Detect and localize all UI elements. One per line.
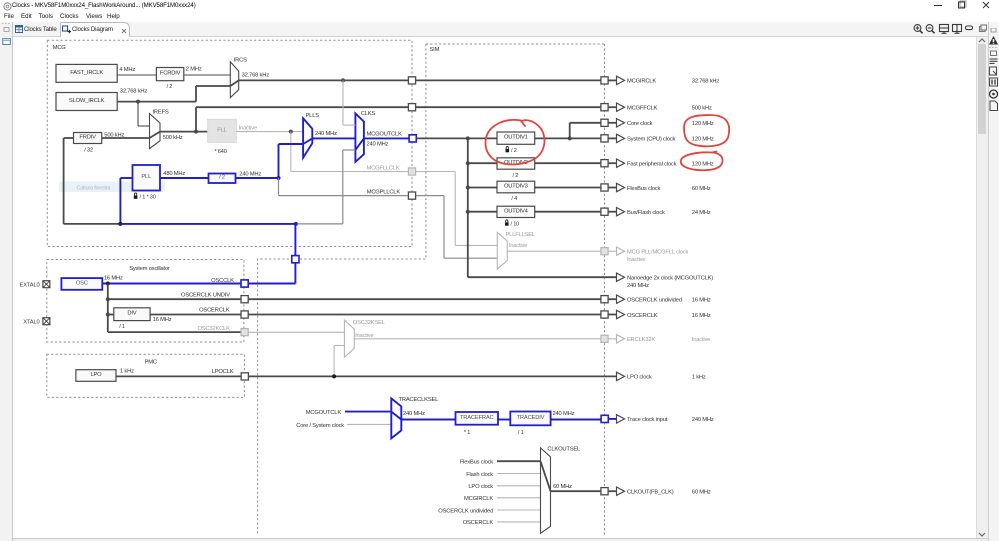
svg-text:LPO: LPO	[90, 372, 102, 378]
svg-text:240 MHz: 240 MHz	[239, 171, 261, 177]
svg-text:/ 2: / 2	[167, 84, 173, 90]
svg-text:240 MHz: 240 MHz	[692, 417, 714, 423]
svg-text:Inactive: Inactive	[239, 125, 257, 131]
svg-text:PMC: PMC	[145, 359, 157, 365]
svg-text:/ 2: / 2	[512, 173, 518, 179]
svg-text:System oscillator: System oscillator	[129, 266, 170, 272]
svg-text:Core clock: Core clock	[627, 121, 653, 127]
svg-text:OSCERCLK undivided: OSCERCLK undivided	[627, 298, 682, 304]
svg-text:OSC32KCLK: OSC32KCLK	[197, 326, 230, 332]
svg-text:/ 1 * 30: / 1 * 30	[140, 195, 156, 201]
svg-text:TRACECLKSEL: TRACECLKSEL	[399, 397, 440, 403]
svg-text:/ 2: / 2	[511, 148, 517, 154]
svg-text:PLLS: PLLS	[306, 113, 320, 119]
svg-text:MCGOUTCLK: MCGOUTCLK	[306, 410, 342, 416]
svg-text:32.768 kHz: 32.768 kHz	[692, 79, 720, 85]
svg-text:16 MHz: 16 MHz	[153, 317, 172, 323]
svg-text:24 MHz: 24 MHz	[692, 210, 711, 216]
svg-text:SLOW_IRCLK: SLOW_IRCLK	[69, 98, 105, 104]
svg-text:MCG PLL/MCGFLL clock: MCG PLL/MCGFLL clock	[627, 250, 688, 256]
svg-text:OSCERCLK undivided: OSCERCLK undivided	[438, 508, 493, 514]
svg-text:IREFS: IREFS	[153, 110, 169, 116]
svg-text:Flash clock: Flash clock	[466, 472, 493, 478]
svg-text:MCGIRCLK: MCGIRCLK	[464, 496, 493, 502]
svg-text:CLKS: CLKS	[361, 111, 376, 117]
svg-text:OUTDIV3: OUTDIV3	[504, 183, 528, 189]
svg-text:LPOCLK: LPOCLK	[212, 369, 234, 375]
svg-text:Fast peripheral clock: Fast peripheral clock	[627, 162, 677, 168]
svg-text:Trace clock input: Trace clock input	[627, 417, 668, 423]
svg-text:32.768 kHz: 32.768 kHz	[242, 72, 270, 78]
svg-text:FRDIV: FRDIV	[79, 134, 96, 140]
svg-text:CLKOUT(FB_CLK): CLKOUT(FB_CLK)	[627, 490, 674, 496]
svg-text:Inactive: Inactive	[692, 337, 710, 343]
svg-text:/ 4: / 4	[511, 196, 517, 202]
svg-text:FLL: FLL	[217, 127, 227, 133]
svg-text:EXTAL0: EXTAL0	[20, 283, 40, 289]
svg-text:/ 1: / 1	[119, 324, 125, 330]
svg-text:OUTDIV1: OUTDIV1	[504, 135, 528, 141]
svg-text:Core / System clock: Core / System clock	[296, 423, 344, 429]
svg-text:OSCERCLK UNDIV: OSCERCLK UNDIV	[181, 293, 230, 299]
svg-text:240 MHz: 240 MHz	[553, 411, 575, 417]
svg-text:16 MHz: 16 MHz	[104, 276, 123, 282]
svg-text:PLL: PLL	[141, 174, 152, 180]
svg-text:16 MHz: 16 MHz	[692, 313, 711, 319]
svg-text:* 640: * 640	[215, 149, 227, 155]
svg-text:Inactive: Inactive	[509, 243, 527, 249]
svg-text:OSCERCLK: OSCERCLK	[627, 313, 658, 319]
svg-text:Cattura finestra: Cattura finestra	[77, 185, 111, 191]
svg-text:OSCERCLK: OSCERCLK	[463, 520, 494, 526]
svg-text:240 MHz: 240 MHz	[403, 411, 425, 417]
svg-text:240 MHz: 240 MHz	[627, 283, 649, 289]
svg-text:4 MHz: 4 MHz	[119, 67, 135, 73]
svg-text:FlexBus clock: FlexBus clock	[627, 186, 660, 192]
svg-text:TRACEFRAC: TRACEFRAC	[460, 415, 494, 421]
svg-text:120 MHz: 120 MHz	[692, 137, 714, 143]
svg-text:OSCCLK: OSCCLK	[211, 278, 234, 284]
svg-text:Bus/Flash clock: Bus/Flash clock	[627, 210, 665, 216]
svg-text:/ 1: / 1	[518, 430, 524, 436]
svg-text:MCGFFCLK: MCGFFCLK	[627, 106, 658, 112]
svg-text:PLLFLLSEL: PLLFLLSEL	[506, 232, 536, 238]
svg-text:240 MHz: 240 MHz	[367, 141, 389, 147]
svg-text:FCRDIV: FCRDIV	[160, 71, 181, 77]
svg-text:MCGOUTCLK: MCGOUTCLK	[367, 131, 403, 137]
svg-text:120 MHz: 120 MHz	[692, 162, 714, 168]
svg-text:/ 2: / 2	[219, 175, 225, 181]
svg-text:LPO clock: LPO clock	[468, 484, 493, 490]
svg-text:LPO clock: LPO clock	[627, 375, 652, 381]
svg-text:500 kHz: 500 kHz	[692, 106, 712, 112]
svg-text:500 kHz: 500 kHz	[163, 135, 183, 141]
svg-text:FlexBus clock: FlexBus clock	[460, 460, 493, 466]
svg-text:Inactive: Inactive	[627, 257, 645, 263]
svg-text:2 MHz: 2 MHz	[186, 66, 202, 72]
svg-text:60 MHz: 60 MHz	[692, 186, 711, 192]
svg-text:OSC: OSC	[76, 280, 88, 286]
svg-text:500 kHz: 500 kHz	[104, 133, 124, 139]
svg-text:16 MHz: 16 MHz	[692, 298, 711, 304]
svg-text:MCGIRCLK: MCGIRCLK	[627, 79, 656, 85]
svg-text:Inactive: Inactive	[355, 333, 373, 339]
svg-text:/ 10: / 10	[511, 222, 520, 228]
svg-text:120 MHz: 120 MHz	[692, 121, 714, 127]
svg-text:SIM: SIM	[430, 47, 440, 53]
svg-text:32.768 kHz: 32.768 kHz	[120, 88, 148, 94]
svg-text:OSC32KSEL: OSC32KSEL	[353, 320, 386, 326]
svg-text:IRCS: IRCS	[234, 58, 247, 64]
svg-text:MCGPLLCLK: MCGPLLCLK	[367, 189, 401, 195]
svg-text:/ 32: / 32	[84, 148, 93, 154]
svg-text:DIV: DIV	[127, 311, 136, 317]
svg-text:FAST_IRCLK: FAST_IRCLK	[70, 70, 103, 76]
svg-text:1 kHz: 1 kHz	[692, 375, 706, 381]
svg-text:480 MHz: 480 MHz	[163, 171, 185, 177]
svg-text:MCGFLLCLK: MCGFLLCLK	[367, 165, 400, 171]
svg-text:60 MHz: 60 MHz	[692, 490, 711, 496]
svg-text:60 MHz: 60 MHz	[553, 484, 572, 490]
svg-text:OUTDIV4: OUTDIV4	[504, 208, 529, 214]
svg-text:MCG: MCG	[53, 45, 67, 51]
svg-text:CLKOUTSEL: CLKOUTSEL	[547, 446, 581, 452]
svg-text:TRACEDIV: TRACEDIV	[517, 415, 545, 421]
svg-text:OSCERCLK: OSCERCLK	[199, 308, 230, 314]
svg-text:System (CPU) clock: System (CPU) clock	[627, 137, 676, 143]
svg-text:240 MHz: 240 MHz	[315, 131, 337, 137]
svg-text:* 1: * 1	[464, 430, 470, 436]
svg-text:1 kHz: 1 kHz	[120, 368, 134, 374]
svg-text:Nanoedge 2x clock (MCGOUTCLK): Nanoedge 2x clock (MCGOUTCLK)	[627, 276, 713, 282]
svg-text:XTAL0: XTAL0	[23, 320, 39, 326]
svg-text:ERCLK32K: ERCLK32K	[627, 337, 655, 343]
